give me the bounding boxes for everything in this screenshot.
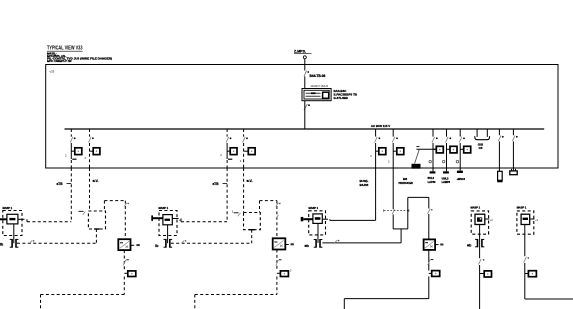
svg-text:U3/L3: U3/L3: [442, 177, 449, 180]
wire D1 below panel: [70, 168, 72, 222]
fuse F4: [244, 148, 256, 155]
wire down: [524, 263, 526, 299]
connector J1: [510, 169, 517, 175]
bus AC BUS 115V: [65, 128, 545, 130]
tee terminal: [94, 228, 100, 230]
svg-text:MA3P 1: MA3P 1: [159, 206, 169, 210]
converter X3: [424, 239, 436, 250]
drop D3 wire: [226, 129, 232, 168]
jumper to transfer switch: [416, 147, 436, 150]
svg-text:aTB: aTB: [213, 182, 220, 186]
svg-text:B4J33: B4J33: [360, 183, 369, 187]
receptacle CT1: [475, 129, 490, 140]
svg-text:■.V.: ■.V.: [247, 179, 253, 183]
load box LRU2: [159, 211, 177, 236]
fuse F9: [460, 146, 471, 153]
svg-text:B44-TB-08: B44-TB-08: [310, 74, 326, 78]
title block: [47, 46, 112, 64]
meter U1: [302, 89, 331, 101]
wire feeder entry upper: [304, 59, 306, 71]
stub right: [322, 219, 330, 220]
stub X1 out: [131, 244, 140, 246]
breaker lever Q2: [384, 209, 409, 214]
fuse F8: [447, 146, 458, 153]
feed stub left: [0, 218, 7, 220]
meter text labels: [334, 89, 358, 100]
svg-text:G.37L4BB: G.37L4BB: [334, 96, 349, 100]
socket contact: [429, 160, 431, 162]
lamp module L1: [124, 271, 136, 277]
fuse F2: [90, 148, 100, 155]
wire relay to plug: [317, 223, 319, 243]
wire relay to plug: [167, 225, 169, 243]
label aTB left pair: [57, 182, 72, 186]
lamp module L4: [480, 271, 492, 277]
feed terminal left: [301, 217, 313, 221]
wire X2 down: [276, 250, 282, 272]
fuse F6: [393, 148, 404, 155]
drop D9 wire: [459, 129, 465, 170]
breaker tick: [524, 257, 529, 263]
feeder label Z.MPS: [294, 50, 312, 54]
wire riser: [400, 229, 402, 243]
svg-text:BVL3: BVL3: [428, 177, 435, 180]
breaker contact S2: [304, 104, 310, 110]
label BUS feeder: [360, 179, 369, 187]
label GSI: [478, 143, 483, 150]
wire plug feed: [171, 240, 252, 243]
wire plug feed: [322, 240, 401, 243]
label under T7: [428, 177, 436, 184]
contact tick: [234, 213, 241, 217]
stub right: [485, 219, 493, 222]
node terminal circle: [303, 56, 306, 59]
contact tick: [79, 211, 86, 215]
svg-text:MA3P 1: MA3P 1: [309, 206, 319, 210]
svg-text:■.V.: ■.V.: [93, 179, 99, 183]
drop D12 wire: [512, 129, 517, 171]
fuse F3: [227, 148, 237, 155]
terminal stud T7: [430, 171, 436, 173]
drop D7 wire: [432, 129, 438, 171]
wire to bottom: [41, 277, 125, 309]
wire down: [479, 265, 481, 309]
svg-text:MA3P 1: MA3P 1: [471, 206, 481, 210]
wire relay down: [524, 225, 526, 257]
wire branch to MA box: [27, 221, 71, 223]
socket contact: [456, 160, 458, 162]
svg-text:M3: M3: [403, 177, 407, 181]
breaker lever Q3: [428, 197, 433, 239]
wire to bottom: [195, 277, 277, 309]
svg-text:MA3P 1: MA3P 1: [517, 206, 527, 210]
wire box bottom riser: [95, 229, 97, 243]
wire D2 below panel: [89, 168, 91, 211]
drop D2 wire: [89, 129, 94, 168]
drop D6 wire: [392, 129, 398, 168]
wire D5 below panel: [330, 168, 376, 220]
wire plug feed: [17, 240, 96, 243]
drop D4 wire: [243, 129, 248, 168]
lamp module L2: [277, 271, 289, 277]
fuse F5: [376, 148, 386, 155]
converter X2: [273, 238, 286, 249]
svg-text:AC BUS 115 V: AC BUS 115 V: [371, 124, 390, 128]
drop D11 wire: [498, 129, 503, 171]
fuse cartridge F10: [497, 171, 502, 182]
converter X1: [118, 239, 130, 250]
wire X1 down: [123, 250, 129, 271]
wire branch to MA box: [181, 221, 227, 223]
breaker contact S1: [304, 71, 309, 77]
wire box top corner link: [104, 201, 129, 240]
relay R3: [313, 214, 322, 224]
svg-text:C3: C3: [479, 146, 483, 150]
drop D1 wire: [70, 129, 76, 168]
svg-text:4443447 13/AJ3: 4443447 13/AJ3: [311, 85, 329, 88]
fuse F7: [433, 146, 443, 153]
stub right: [18, 219, 27, 221]
relay R1: [7, 214, 18, 224]
breaker tick: [479, 259, 485, 265]
panel enclosure box: [46, 65, 558, 169]
wire box top corner link: [260, 201, 281, 239]
label aTB pair2: [213, 182, 228, 186]
svg-text:MA3P 1: MA3P 1: [3, 206, 13, 210]
svg-text:Z.MPS.: Z.MPS.: [294, 50, 306, 54]
socket contact: [443, 160, 445, 162]
drop D8 wire: [446, 129, 452, 171]
switch lever Q1: [415, 149, 420, 163]
contactor block K1: [412, 164, 421, 169]
fuse F1: [71, 148, 82, 155]
plug P3: [314, 239, 323, 248]
wire relay down: [479, 225, 481, 259]
relay R5: [521, 214, 530, 224]
wire D6 below panel: [392, 168, 394, 209]
wire box bottom riser: [251, 230, 253, 244]
control box CB1: [88, 211, 105, 229]
load box LRU5: [517, 211, 534, 234]
plug P4: [475, 239, 484, 247]
svg-text:M: M: [179, 220, 181, 222]
relay R4: [475, 214, 485, 224]
svg-text:aTB: aTB: [57, 182, 64, 186]
wire D4 below panel: [243, 168, 245, 213]
plug P2: [164, 239, 173, 248]
svg-text:PRODUCER: PRODUCER: [399, 182, 414, 185]
wire relay to plug: [13, 224, 15, 243]
plug P1: [10, 239, 19, 248]
terminal stud T9: [457, 171, 463, 173]
wire X3 down: [428, 250, 434, 271]
lamp module L5: [525, 271, 537, 277]
wire to bottom: [344, 276, 429, 309]
terminal stud T8: [443, 171, 449, 173]
wire feeder to bus: [304, 101, 306, 129]
svg-text:LAP33: LAP33: [428, 181, 436, 184]
tee terminal: [249, 229, 255, 231]
svg-text:+MSC3: +MSC3: [457, 178, 466, 181]
lamp module L3: [429, 271, 440, 277]
relay R2: [163, 215, 172, 225]
stub X2 out: [285, 243, 294, 245]
stub X3 out: [435, 244, 443, 246]
load box LRU4: [471, 211, 488, 234]
wire U link: [393, 197, 429, 229]
svg-text:v33: v33: [50, 70, 55, 74]
svg-text:LAMP3: LAMP3: [442, 181, 451, 184]
load box LRU1: [3, 211, 22, 236]
label M PRODUCER: [399, 177, 414, 185]
stub right: [172, 219, 181, 223]
svg-text:EPC OMEPLT IW: EPC OMEPLT IW: [47, 59, 72, 63]
label under T8: [442, 177, 451, 184]
wire feeder to meter: [304, 77, 306, 89]
stub right: [530, 219, 539, 222]
load box LRU3: [309, 211, 326, 235]
drop D5 wire: [375, 129, 381, 168]
wire D3 below panel: [226, 168, 228, 222]
feed terminal left: [151, 215, 163, 221]
control box CB2: [244, 213, 261, 230]
wire to right edge: [525, 298, 573, 300]
